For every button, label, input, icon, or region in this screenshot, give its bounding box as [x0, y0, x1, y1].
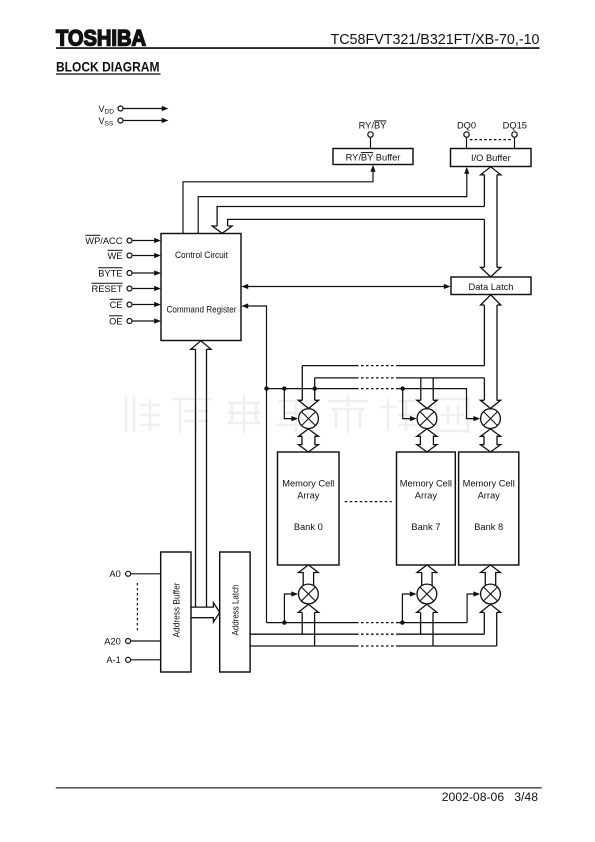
svg-text:Command Register: Command Register — [167, 304, 237, 314]
svg-text:TC58FVT321/B321FT/XB-70,-10: TC58FVT321/B321FT/XB-70,-10 — [331, 32, 540, 48]
svg-text:Bank 8: Bank 8 — [474, 522, 503, 532]
svg-text:Array: Array — [297, 491, 320, 501]
svg-text:RY/BY: RY/BY — [359, 121, 387, 131]
svg-text:VSS: VSS — [99, 116, 114, 128]
svg-text:WP/ACC: WP/ACC — [85, 236, 122, 246]
svg-text:Address Buffer: Address Buffer — [172, 583, 182, 638]
svg-text:A20: A20 — [104, 636, 121, 646]
svg-text:CE: CE — [110, 300, 123, 310]
svg-text:Array: Array — [478, 491, 501, 501]
svg-text:WE: WE — [108, 251, 123, 261]
svg-text:A0: A0 — [109, 569, 120, 579]
svg-text:RESET: RESET — [92, 284, 123, 294]
svg-text:Memory Cell: Memory Cell — [282, 479, 334, 489]
svg-text:I/O Buffer: I/O Buffer — [471, 153, 511, 163]
svg-text:Memory Cell: Memory Cell — [463, 479, 515, 489]
svg-text:Address Latch: Address Latch — [231, 585, 241, 636]
svg-text:Control Circuit: Control Circuit — [175, 250, 228, 260]
svg-text:A-1: A-1 — [106, 655, 120, 665]
svg-text:OE: OE — [109, 316, 122, 326]
svg-text:DQ0: DQ0 — [457, 121, 476, 131]
svg-text:VDD: VDD — [99, 104, 115, 116]
svg-text:BLOCK DIAGRAM: BLOCK DIAGRAM — [56, 60, 160, 75]
svg-text:2002-08-06 3/48: 2002-08-06 3/48 — [442, 790, 538, 804]
svg-text:DQ15: DQ15 — [503, 121, 527, 131]
svg-text:RY/BY Buffer: RY/BY Buffer — [346, 152, 401, 162]
svg-text:BYTE: BYTE — [98, 268, 122, 278]
svg-text:Data Latch: Data Latch — [469, 282, 514, 292]
svg-text:Array: Array — [415, 491, 438, 501]
svg-text:Memory Cell: Memory Cell — [400, 479, 452, 489]
svg-text:Bank 0: Bank 0 — [294, 522, 323, 532]
svg-text:TOSHIBA: TOSHIBA — [56, 26, 146, 51]
svg-text:Bank 7: Bank 7 — [411, 522, 440, 532]
